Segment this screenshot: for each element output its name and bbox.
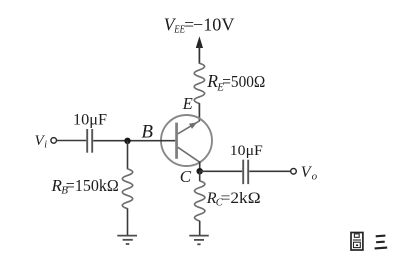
wire input to capacitor bbox=[57, 140, 87, 142]
resistor RC bbox=[195, 181, 205, 221]
input terminal circle bbox=[51, 138, 57, 144]
capacitor C1 plates bbox=[87, 129, 92, 153]
wire RB to ground bbox=[127, 208, 129, 235]
svg-text:i: i bbox=[44, 140, 47, 151]
label RC=2kohm bbox=[206, 190, 261, 209]
wire collector vertical bbox=[199, 162, 201, 172]
output terminal circle bbox=[291, 169, 297, 175]
wire node C to capacitor C2 bbox=[200, 170, 243, 172]
node B junction dot bbox=[124, 138, 130, 144]
wire capacitor C2 to output bbox=[249, 170, 291, 172]
svg-text:E: E bbox=[182, 94, 193, 113]
wire node C down to RC bbox=[199, 171, 201, 181]
ground (RB) bbox=[117, 236, 137, 244]
svg-text:10μF: 10μF bbox=[73, 111, 107, 128]
svg-text:C: C bbox=[180, 167, 192, 186]
supply arrow VEE bbox=[196, 36, 203, 64]
figure caption glyph 三 bbox=[375, 236, 388, 249]
output terminal Vo label bbox=[301, 164, 318, 182]
figure caption glyph 圖 bbox=[351, 233, 363, 251]
resistor RE bbox=[194, 63, 204, 103]
transistor Q1 base bar bbox=[175, 123, 178, 159]
capacitor C2 plates bbox=[243, 160, 248, 184]
transistor Q1 emitter arrowhead bbox=[189, 122, 197, 129]
resistor RB bbox=[122, 169, 132, 209]
svg-text:o: o bbox=[312, 170, 318, 182]
svg-text:=2kΩ: =2kΩ bbox=[221, 190, 261, 207]
node C junction dot bbox=[197, 168, 203, 174]
label VEE=-10V bbox=[164, 15, 235, 36]
wire capacitor to node B bbox=[93, 140, 127, 142]
transistor Q1 emitter diagonal bbox=[178, 121, 200, 134]
wire node B down to RB bbox=[127, 141, 129, 170]
svg-text:=500Ω: =500Ω bbox=[222, 72, 265, 91]
label RB=150kohm bbox=[51, 176, 119, 197]
input terminal Vi label bbox=[35, 133, 48, 151]
transistor Q1 collector diagonal bbox=[178, 147, 200, 162]
svg-text:10μF: 10μF bbox=[230, 143, 263, 159]
wire emitter vertical bbox=[198, 103, 200, 121]
svg-text:−10V: −10V bbox=[193, 15, 235, 35]
wire base bbox=[128, 140, 176, 142]
ground (RC) bbox=[189, 236, 209, 245]
svg-text:B: B bbox=[141, 121, 153, 142]
wire RC to ground bbox=[199, 221, 201, 236]
transistor Q1 circle bbox=[161, 115, 212, 166]
label RE=500ohm bbox=[206, 71, 265, 93]
svg-text:=150kΩ: =150kΩ bbox=[66, 176, 119, 195]
